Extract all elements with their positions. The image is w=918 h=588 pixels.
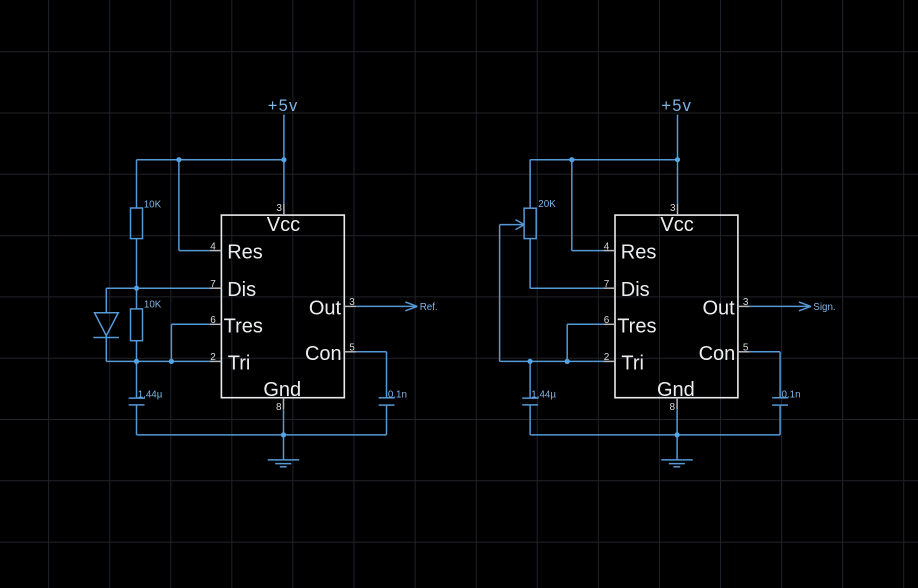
- wire top rail down to resistor R1: [136, 160, 138, 208]
- wire down to capacitor C1: [136, 361, 138, 398]
- power +5v label: [661, 97, 692, 115]
- svg-text:+5v: +5v: [268, 97, 299, 115]
- svg-text:Dis: Dis: [227, 279, 256, 301]
- svg-text:Ref.: Ref.: [420, 302, 438, 313]
- resistor R2 value 10K: [144, 299, 162, 310]
- IC U2 label Con: [699, 343, 736, 365]
- IC U1 pin stub 8 (Gnd, bottom): [283, 398, 285, 410]
- svg-text:2: 2: [604, 352, 610, 363]
- wire cap C3 bottom to ground rail: [529, 405, 531, 435]
- IC U1 pin stub 5 (Con, right): [344, 351, 356, 353]
- svg-text:2: 2: [210, 352, 216, 363]
- svg-text:1,44µ: 1,44µ: [531, 390, 556, 401]
- svg-text:Con: Con: [305, 343, 342, 365]
- capacitor C4 0.1n plates: [772, 398, 788, 405]
- svg-text:+5v: +5v: [661, 97, 692, 115]
- svg-text:3: 3: [276, 203, 282, 214]
- potentiometer value 20K: [538, 199, 556, 210]
- svg-text:Vcc: Vcc: [660, 214, 693, 236]
- svg-text:Gnd: Gnd: [263, 379, 301, 401]
- wire ground rail: [137, 434, 387, 436]
- svg-text:6: 6: [604, 315, 610, 326]
- resistor R2 10K body: [131, 309, 143, 341]
- svg-text:7: 7: [210, 279, 216, 290]
- IC U2 pin stub 4 (Res): [603, 250, 615, 252]
- svg-text:8: 8: [276, 402, 282, 413]
- potentiometer R3 20K body: [524, 208, 536, 238]
- junction Tri rail / Tres branch: [169, 359, 174, 364]
- pin number 7: [210, 279, 216, 290]
- wire top rail: [137, 159, 284, 161]
- IC U1 label Out: [309, 297, 342, 319]
- wire down to capacitor C3: [529, 361, 531, 398]
- wire Gnd pin 8 down: [676, 409, 678, 460]
- wire R2 bottom to Tri rail: [136, 341, 138, 362]
- svg-text:Gnd: Gnd: [657, 379, 695, 401]
- IC U2 label Tres: [617, 315, 656, 337]
- IC U2 pin stub 6 (Tres): [603, 323, 615, 325]
- svg-text:0.1n: 0.1n: [388, 389, 407, 400]
- pin number 5 (Con): [349, 343, 355, 354]
- svg-text:5: 5: [743, 343, 749, 354]
- pin number 2: [604, 352, 610, 363]
- diode D1: [93, 313, 119, 338]
- svg-text:Sign.: Sign.: [813, 302, 835, 313]
- IC U1 label Vcc: [267, 214, 300, 236]
- junction top rail / Res branch: [569, 157, 574, 162]
- wire Res branch horizontal to pin 4: [572, 250, 603, 252]
- svg-text:5: 5: [349, 343, 355, 354]
- junction on +5v vertical: [675, 157, 680, 162]
- arrow head on Out net: [405, 302, 417, 311]
- resistor R1 value 10K: [144, 200, 162, 211]
- wire +5v vertical down to Vcc pin 3: [677, 115, 679, 204]
- pin number 6: [604, 315, 610, 326]
- wire Tres branch horizontal to pin 6: [171, 323, 209, 325]
- arrow head on Out net: [799, 302, 811, 311]
- IC U2 label Out: [702, 297, 735, 319]
- ground symbol: [661, 460, 693, 467]
- wire cap C2 bottom to ground rail: [386, 405, 388, 435]
- IC U2 pin stub 3 (Vcc, top): [677, 204, 679, 216]
- wire top rail: [530, 159, 677, 161]
- pin number 4: [604, 241, 610, 252]
- wire Tres branch horizontal to pin 6: [567, 323, 603, 325]
- IC U2 pin stub 8 (Gnd, bottom): [676, 398, 678, 410]
- wire Dis rail: [530, 287, 603, 289]
- junction on +5v vertical: [281, 157, 286, 162]
- IC U1 label Gnd: [263, 379, 301, 401]
- svg-text:7: 7: [604, 279, 610, 290]
- junction ground rail / pin 8: [281, 432, 286, 437]
- IC U1 label Con: [305, 343, 342, 365]
- wire Gnd pin 8 down: [283, 409, 285, 460]
- capacitor C4 value 0.1n: [782, 389, 801, 400]
- svg-text:Tri: Tri: [228, 352, 251, 374]
- pin number 8 (Gnd): [670, 402, 676, 413]
- svg-text:Out: Out: [702, 297, 735, 319]
- svg-text:Con: Con: [699, 343, 736, 365]
- IC U1 label Tres: [224, 315, 263, 337]
- wire Res branch vertical: [178, 160, 180, 251]
- capacitor C3 value 1,44u: [531, 390, 556, 401]
- svg-text:4: 4: [210, 241, 216, 252]
- svg-text:10K: 10K: [144, 299, 162, 310]
- IC U2 pin stub 2 (Tri): [603, 360, 615, 362]
- pot wiper arrow: [500, 220, 525, 230]
- IC U1 pin stub 3 (Out, right): [344, 305, 356, 307]
- svg-text:6: 6: [210, 315, 216, 326]
- wire cap C4 bottom to ground rail: [779, 405, 781, 435]
- IC U2 label Gnd: [657, 379, 695, 401]
- IC U2 label Tri: [621, 352, 644, 374]
- IC U2 label Vcc: [660, 214, 693, 236]
- wire Tres branch vertical: [170, 324, 172, 361]
- svg-text:8: 8: [670, 402, 676, 413]
- junction Tri rail / R2 column: [134, 359, 139, 364]
- wire ground rail: [530, 434, 780, 436]
- svg-text:10K: 10K: [144, 200, 162, 211]
- svg-text:3: 3: [743, 297, 749, 308]
- wire Tri rail: [106, 360, 209, 362]
- junction Tri rail / Tres branch: [565, 359, 570, 364]
- wire Out net (pin 3): [750, 305, 811, 307]
- wire diode cathode to Tri rail: [105, 336, 107, 362]
- svg-text:4: 4: [604, 241, 610, 252]
- pin number 3 (Out): [743, 297, 749, 308]
- wire +5v vertical down to Vcc pin 3: [283, 115, 285, 204]
- IC U1 pin stub 4 (Res): [210, 250, 222, 252]
- ground symbol: [268, 460, 300, 467]
- IC U1 label Res: [227, 242, 263, 264]
- svg-text:Tri: Tri: [621, 352, 644, 374]
- wire R1 bottom to Dis rail: [136, 239, 138, 309]
- capacitor C3 1,44u plates: [522, 398, 538, 405]
- IC U2 555 timer body: [615, 215, 738, 398]
- pin number 2: [210, 352, 216, 363]
- pin number 3 (Vcc): [670, 203, 676, 214]
- wire Res branch vertical: [571, 160, 573, 251]
- junction top rail / Res branch: [176, 157, 181, 162]
- IC U1 555 timer body: [221, 215, 344, 398]
- svg-text:Dis: Dis: [621, 279, 650, 301]
- pin number 4: [210, 241, 216, 252]
- IC U1 label Dis: [227, 279, 256, 301]
- wire cap C1 bottom to ground rail: [136, 405, 138, 435]
- wire diode anode drop: [105, 288, 107, 313]
- svg-text:Tres: Tres: [224, 315, 263, 337]
- svg-text:Tres: Tres: [617, 315, 656, 337]
- svg-text:3: 3: [670, 203, 676, 214]
- IC U1 pin stub 6 (Tres): [210, 323, 222, 325]
- power +5v label: [268, 97, 299, 115]
- IC U2 label Dis: [621, 279, 650, 301]
- wire Con net (pin 5): [356, 352, 386, 398]
- pin number 6: [210, 315, 216, 326]
- capacitor C2 0.1n plates: [379, 398, 395, 405]
- svg-text:Out: Out: [309, 297, 342, 319]
- svg-text:3: 3: [349, 297, 355, 308]
- IC U1 pin stub 7 (Dis): [210, 287, 222, 289]
- IC U2 pin stub 3 (Out, right): [738, 305, 750, 307]
- wire Con net (pin 5): [750, 352, 780, 398]
- junction Dis rail / resistor column: [134, 286, 139, 291]
- svg-text:0.1n: 0.1n: [782, 389, 801, 400]
- pin number 3 (Out): [349, 297, 355, 308]
- pin number 8 (Gnd): [276, 402, 282, 413]
- wire Tres branch vertical: [566, 324, 568, 361]
- junction ground rail / pin 8: [675, 432, 680, 437]
- IC U2 pin stub 7 (Dis): [603, 287, 615, 289]
- wire Dis rail: [106, 287, 209, 289]
- net name Ref.: [420, 302, 438, 313]
- IC U1 label Tri: [228, 352, 251, 374]
- wire Out net (pin 3): [356, 305, 417, 307]
- net name Sign.: [813, 302, 835, 313]
- svg-text:Vcc: Vcc: [267, 214, 300, 236]
- pin number 3 (Vcc): [276, 203, 282, 214]
- wire wiper down to Tri rail: [499, 225, 501, 362]
- pin number 5 (Con): [743, 343, 749, 354]
- junction Tri rail / cap branch: [528, 359, 533, 364]
- wire Tri rail: [500, 360, 604, 362]
- wire top rail down to potentiometer: [529, 160, 531, 209]
- svg-text:Res: Res: [227, 242, 263, 264]
- IC U1 pin stub 2 (Tri): [210, 360, 222, 362]
- resistor R1 10K body: [131, 208, 143, 239]
- pin number 7: [604, 279, 610, 290]
- capacitor C1 1,44u plates: [129, 398, 145, 405]
- IC U2 label Res: [621, 242, 657, 264]
- svg-text:Res: Res: [621, 242, 657, 264]
- capacitor C1 value 1,44u: [138, 390, 163, 401]
- svg-text:20K: 20K: [538, 199, 556, 210]
- wire pot bottom to Dis rail corner: [529, 239, 531, 289]
- IC U2 pin stub 5 (Con, right): [738, 351, 750, 353]
- svg-text:1,44µ: 1,44µ: [138, 390, 163, 401]
- wire Res branch horizontal to pin 4: [179, 250, 210, 252]
- capacitor C2 value 0.1n: [388, 389, 407, 400]
- IC U1 pin stub 3 (Vcc, top): [283, 204, 285, 216]
